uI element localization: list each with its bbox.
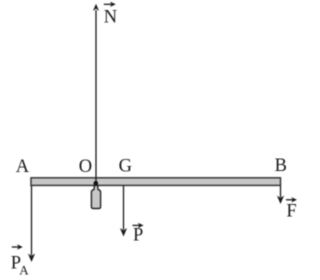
beam (lever bar A-B) (31, 178, 281, 186)
svg-text:F: F (286, 201, 296, 221)
svg-text:P: P (133, 226, 143, 246)
label N with vector arrow (104, 2, 117, 28)
force P arrow (weight at G, downward) (120, 186, 127, 237)
svg-text:B: B (275, 156, 287, 176)
fulcrum pin under the beam (91, 186, 100, 209)
label P_A with vector arrow (11, 244, 29, 277)
svg-text:A: A (16, 157, 30, 177)
pivot point dot at O (94, 181, 99, 186)
force P_A arrow (weight at A, downward) (28, 186, 35, 262)
label F with vector arrow (286, 197, 297, 221)
force F arrow (applied force at B, downward) (277, 186, 284, 204)
svg-text:O: O (79, 157, 92, 177)
svg-text:N: N (104, 8, 117, 28)
force N arrow (upward normal force at O) (93, 4, 99, 182)
svg-text:G: G (119, 157, 132, 177)
svg-text:A: A (19, 263, 29, 278)
label P with vector arrow (132, 223, 143, 246)
